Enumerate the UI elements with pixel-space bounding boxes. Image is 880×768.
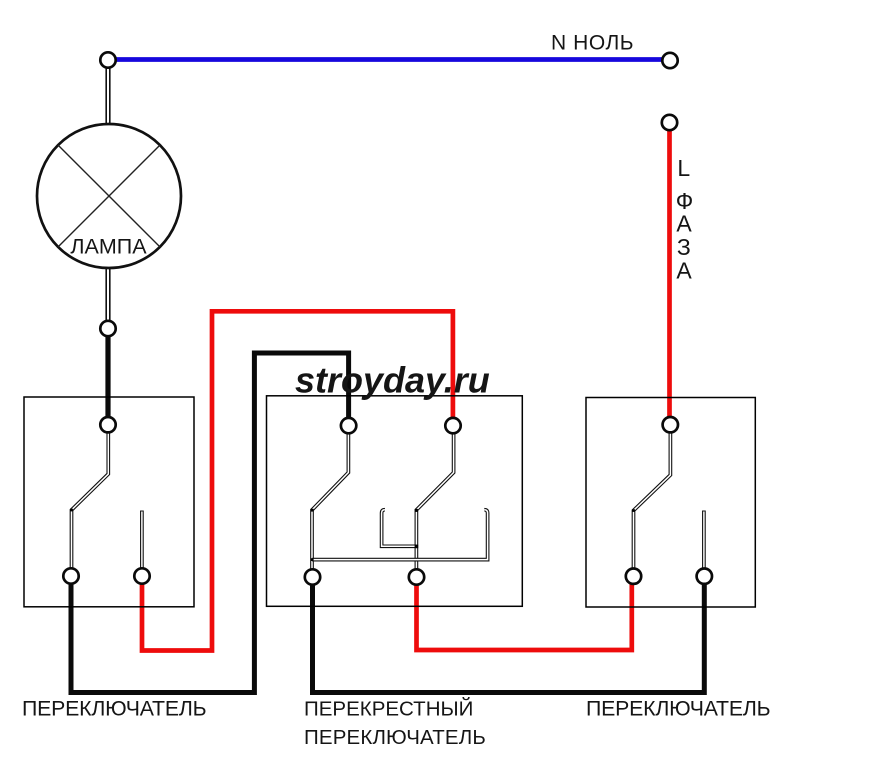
svg-text:ЛАМПА: ЛАМПА bbox=[70, 235, 147, 259]
svg-text:N НОЛЬ: N НОЛЬ bbox=[551, 32, 634, 55]
svg-text:З: З bbox=[677, 234, 691, 260]
svg-text:ПЕРЕКЛЮЧАТЕЛЬ: ПЕРЕКЛЮЧАТЕЛЬ bbox=[22, 697, 206, 721]
svg-text:ПЕРЕКЛЮЧАТЕЛЬ: ПЕРЕКЛЮЧАТЕЛЬ bbox=[304, 726, 486, 749]
svg-text:ПЕРЕКРЕСТНЫЙ: ПЕРЕКРЕСТНЫЙ bbox=[304, 697, 473, 721]
svg-text:L: L bbox=[677, 155, 690, 181]
svg-text:ПЕРЕКЛЮЧАТЕЛЬ: ПЕРЕКЛЮЧАТЕЛЬ bbox=[586, 697, 770, 721]
svg-text:А: А bbox=[676, 258, 692, 284]
svg-text:stroyday.ru: stroyday.ru bbox=[295, 360, 490, 401]
svg-text:А: А bbox=[676, 211, 692, 237]
